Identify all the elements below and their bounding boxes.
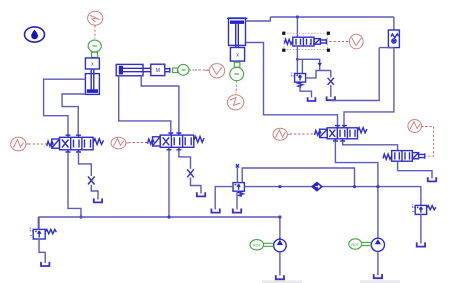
wire V4 branch with arrow to node (297, 59, 319, 70)
proportional valve V2 4/3 (148, 133, 205, 150)
relief valve RV3 (412, 205, 435, 215)
tank T9 (417, 242, 425, 246)
wire CV1 to valve V3 port B (344, 48, 394, 128)
selection frame of valve V4 (282, 32, 330, 52)
tank T4 (211, 209, 219, 213)
signal generator SG3 (111, 137, 128, 149)
check valve CV2 diamond (312, 182, 323, 191)
plug X2 (187, 169, 194, 177)
signal generator SG6 (408, 120, 422, 133)
wire X3 to tank T7 (330, 85, 332, 97)
svg-text:M: M (156, 68, 160, 74)
check valve CV1 (388, 17, 399, 48)
control link PS1 to scope SC1 (189, 69, 194, 71)
control link PS2 to SG4 (235, 80, 238, 93)
wire C3 cap-end to top bus (246, 17, 270, 21)
position sensor PS1 (173, 64, 189, 75)
tank T1 (41, 262, 49, 266)
wire V3 port B2 to flow valve FV1 (343, 141, 398, 151)
wire X1 to tank T2 (91, 185, 98, 200)
svg-text:ROT: ROT (253, 244, 261, 248)
control link SG2 to V1 (29, 143, 48, 145)
rotary drive ROT1 (250, 240, 274, 250)
junction dot V4 branch (296, 58, 299, 61)
wire RV1 drain to tank T1 (39, 239, 45, 263)
signal generator SG1 (88, 11, 103, 25)
wire RV4 drain to tank T6 (300, 86, 312, 98)
mass load M3 (230, 48, 244, 62)
wire FV1 drain to tank T8 (398, 161, 432, 178)
cylinder C2 horizontal (116, 64, 151, 75)
tank T7 (327, 96, 335, 100)
cylinder C3 vertical rod down (227, 18, 248, 48)
wire C2 cap-end to V2 port A (119, 76, 171, 133)
wire V4 port A to relief RV4 (296, 46, 298, 74)
junction dot V2-bus (167, 215, 170, 218)
signal generator SG4 (227, 95, 243, 110)
wire V2 port T to plug X2 (179, 150, 191, 169)
shadow under T11 (360, 280, 400, 283)
relief valve RV2 (233, 183, 244, 197)
proportional valve V4 (selected) (284, 37, 326, 46)
tank T11 (374, 274, 382, 278)
oscilloscope SC2 (349, 34, 363, 49)
mass load M2 (151, 64, 170, 75)
control link V4 to scope SC2 (330, 41, 349, 43)
mass load M1 (85, 58, 99, 69)
wire V3 port T to pump P2 riser (335, 141, 378, 238)
flow control valve FV1 (383, 151, 425, 162)
oscilloscope SC1 (205, 64, 225, 78)
wire top bus to V4 port P (296, 17, 298, 37)
supply bus A (244, 187, 421, 206)
wire C2 rod-end to V2 port B (141, 76, 179, 133)
bypass wire CV1 to X3 node (331, 48, 394, 101)
wire RV2 drain to tank T5 (236, 191, 238, 209)
control link SG6 to FV1 (421, 127, 433, 157)
force sensor FS1 (88, 40, 101, 57)
junction dot top bus to V4 (296, 15, 299, 18)
proportional valve V3 4/3 (315, 126, 367, 141)
pilot riser RV2 (236, 168, 238, 183)
junction dot pump1 on bus B (278, 215, 281, 218)
wire C3 rod-end to bus C (246, 43, 338, 128)
wire pump P2 to tank T11 (377, 252, 379, 276)
tank T3 (197, 192, 205, 196)
junction dot V1-bus (79, 215, 82, 218)
wire V1 port P to pressure bus (68, 152, 81, 217)
shadow under T10 (262, 280, 302, 283)
wire V2 port P to pressure bus (168, 150, 170, 217)
top bus (270, 16, 394, 18)
wire X2 to tank T3 (191, 178, 202, 194)
control link SG5 to V3 (290, 133, 315, 135)
signal generator SG5 (273, 128, 290, 140)
wire C1 rod-end to V1 port A (44, 79, 86, 135)
junction dot pump1 riser on bus A (278, 185, 281, 188)
signal generator SG2 (11, 137, 29, 151)
pilot line RV4 second riser (301, 59, 303, 73)
junction dot RV2 overhead on bus A (353, 185, 356, 188)
wire pump P1 to tank T10 (279, 252, 281, 276)
svg-text:ROT: ROT (351, 243, 359, 247)
pressure bus B (38, 216, 280, 218)
wire V1 port T to plug X1 (79, 152, 92, 176)
pump P2 (371, 238, 384, 251)
tank T10 (276, 275, 284, 279)
hydraulic domain icon (25, 27, 45, 42)
plug X3 (330, 71, 332, 78)
wire RV1 riser to bus (38, 217, 40, 229)
tank T2 (94, 198, 102, 202)
tank T5 (233, 209, 241, 213)
wire RV4 outlet to node (306, 71, 331, 78)
relief valve RV1 (30, 228, 56, 240)
wire C1 cap-end to V1 port B (62, 94, 85, 135)
wire RV2 outlet to tank T4 (215, 187, 233, 210)
control link SG3 to V2 (129, 142, 148, 144)
position sensor PS2 (230, 62, 244, 81)
plug X1 (88, 177, 95, 185)
wire RV3 drain to tank T9 (420, 214, 422, 243)
tank T6 (308, 97, 316, 101)
control link SG1 to force sensor (94, 25, 96, 38)
tank T8 (428, 177, 436, 181)
rotary drive ROT2 (349, 239, 372, 249)
junction dot pump2 riser on bus A (376, 185, 379, 188)
relief valve RV4 (292, 73, 306, 88)
wire RV2 riser and overhead to bus A (242, 168, 354, 187)
proportional valve V1 4/3 (47, 135, 104, 152)
cylinder C1 vertical (85, 69, 99, 94)
pump P1 (274, 217, 287, 252)
